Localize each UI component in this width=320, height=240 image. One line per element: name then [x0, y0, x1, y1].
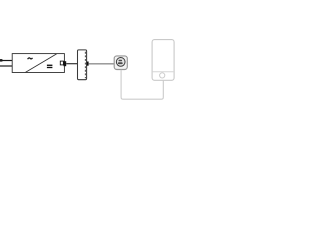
adapter output plug (black) — [87, 62, 89, 66]
travel adapter dashed contact strip — [85, 52, 87, 78]
AC pin lower (plug prong) — [0, 65, 12, 67]
travel adapter body — [78, 50, 87, 80]
phone body — [152, 40, 174, 81]
DC plug (black) — [64, 61, 67, 66]
DC output jack on converter — [60, 61, 63, 65]
wall socket outlet body — [114, 56, 127, 70]
phone screen bottom line — [152, 71, 174, 73]
socket slot upper — [119, 60, 123, 62]
DC symbol = — [47, 65, 53, 69]
phone home button — [160, 73, 165, 78]
wall socket recess circle — [116, 58, 125, 67]
wire adapter to wall socket — [89, 63, 115, 65]
AC pin upper (plug prong) — [0, 59, 12, 62]
socket slot lower — [118, 62, 123, 64]
AC/DC converter U1 body — [12, 54, 64, 73]
AC/DC converter diagonal divider — [25, 54, 56, 73]
wire converter to adapter — [66, 63, 78, 65]
AC symbol ~ — [28, 58, 33, 59]
charging cable socket to phone — [121, 70, 163, 99]
